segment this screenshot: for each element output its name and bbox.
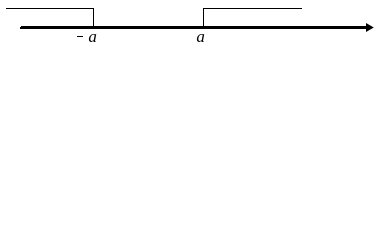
svg-text:a: a: [88, 27, 97, 46]
svg-text:a: a: [196, 27, 205, 46]
